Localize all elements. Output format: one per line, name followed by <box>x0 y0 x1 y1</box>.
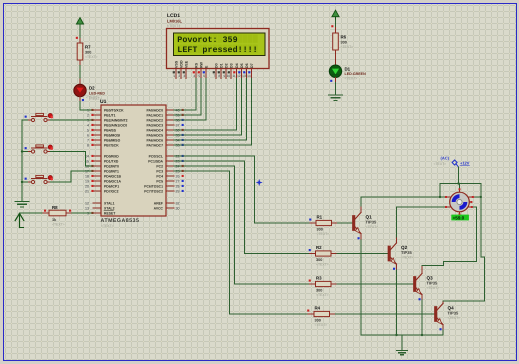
svg-text:D4: D4 <box>235 63 239 68</box>
svg-text:<TEXT>: <TEXT> <box>101 224 114 228</box>
U1 pin 8 (PB7/SCK) stub <box>87 143 119 147</box>
svg-text:PC5: PC5 <box>156 179 163 183</box>
LED D2 (red) <box>74 84 86 96</box>
svg-text:PD6/ICP1: PD6/ICP1 <box>104 184 119 188</box>
node marker left of R1 <box>309 219 311 221</box>
svg-text:18: 18 <box>85 174 89 178</box>
svg-text:R8: R8 <box>52 205 58 210</box>
svg-text:LED-RED: LED-RED <box>89 91 105 95</box>
svg-text:12: 12 <box>237 74 241 78</box>
U1 pin 34 (PA6/ADC6) stub <box>146 138 183 142</box>
transistor Q1 (TIP35 NPN) <box>353 212 362 233</box>
resistor R6 pins <box>335 28 337 34</box>
svg-text:PA6/ADC6: PA6/ADC6 <box>146 138 163 142</box>
wire Q4 emitter down to common bus <box>442 330 444 335</box>
resistor R4 labels <box>315 306 328 327</box>
U1 pin 4 (PB3/AIN1/OC0) stub <box>87 123 127 127</box>
resistor R2 pins <box>310 253 316 255</box>
resistor R2 labels <box>316 245 329 266</box>
wire R6 to D1 <box>335 58 337 65</box>
LCD1 pin 10 (D3) <box>227 63 234 78</box>
svg-text:D5: D5 <box>240 63 244 68</box>
wire motor right top pin to right drop <box>474 196 481 198</box>
svg-text:D7: D7 <box>250 63 254 68</box>
LED D2 labels <box>89 86 105 101</box>
svg-text:<TEXT>: <TEXT> <box>317 232 330 236</box>
wire U1 PC1 to R2 <box>174 161 310 254</box>
svg-text:LED-GREEN: LED-GREEN <box>345 72 367 76</box>
node marker left of R3 <box>309 280 311 282</box>
power terminal (VCC arrow) top left <box>76 18 83 24</box>
svg-text:32: 32 <box>176 201 180 205</box>
svg-text:PC3: PC3 <box>156 169 163 173</box>
svg-text:12: 12 <box>85 201 89 205</box>
svg-text:+59.0: +59.0 <box>453 215 465 220</box>
node red marker above R7 <box>76 37 78 39</box>
svg-text:300: 300 <box>85 50 91 54</box>
svg-text:7: 7 <box>87 138 89 142</box>
wire R1 to Q1 base <box>338 222 353 224</box>
wire left vertical bus <box>21 120 23 201</box>
wire U1 PC0 to R1 <box>174 156 310 223</box>
wire motor supply top rail <box>440 183 481 185</box>
transistor Q2 labels <box>401 245 414 260</box>
wire button2 left to bus <box>22 151 28 153</box>
svg-text:<TEXT>: <TEXT> <box>52 222 65 226</box>
power terminal symbol near motor <box>452 160 458 167</box>
svg-text:PA7/ADC7: PA7/ADC7 <box>146 143 163 147</box>
wire U1 PC3 to R4 <box>174 171 308 314</box>
svg-text:4: 4 <box>193 74 195 78</box>
wire button2 to U1 pin 16 PD2/INT0 <box>51 152 93 167</box>
svg-text:28: 28 <box>176 184 180 188</box>
svg-text:R1: R1 <box>317 215 323 220</box>
svg-text:+12V: +12V <box>460 161 470 166</box>
svg-text:5: 5 <box>87 128 89 132</box>
svg-text:Povorot: 359: Povorot: 359 <box>177 35 237 45</box>
Q1 collector pin <box>360 206 362 212</box>
svg-text:6: 6 <box>203 74 205 78</box>
svg-text:20: 20 <box>85 184 89 188</box>
svg-text:PB0/T0/XCK: PB0/T0/XCK <box>104 108 124 112</box>
Q3 emitter pin <box>421 295 423 300</box>
svg-text:PA3/ADC3: PA3/ADC3 <box>146 123 163 127</box>
U1 pin 6 (PB5/MOSI) stub <box>87 133 120 137</box>
transistor Q3 (TIP35 NPN) <box>414 273 423 294</box>
U1 pin 1 (PB0/T0/XCK) stub <box>87 108 124 112</box>
LCD1 pin 8 (D1) <box>218 63 224 78</box>
svg-text:PA4/ADC4: PA4/ADC4 <box>146 128 163 132</box>
node blue marker below D1 <box>330 80 332 82</box>
svg-text:9: 9 <box>223 74 225 78</box>
U1 pin 18 (PD4/OC1B) stub <box>85 174 122 178</box>
svg-text:R7: R7 <box>85 45 91 50</box>
Q4 emitter pin <box>442 325 444 330</box>
U1 pin 9 (RESET) stub <box>87 210 116 215</box>
wire button1 to U1 pin 3 PB2 <box>51 119 93 121</box>
svg-text:VEE: VEE <box>184 60 188 68</box>
svg-text:PD1/TXD: PD1/TXD <box>104 159 119 163</box>
resistor R3 <box>316 281 332 286</box>
svg-text:<TEXT>: <TEXT> <box>345 77 358 81</box>
LCD1 pin 1 (VSS) <box>173 60 179 78</box>
svg-text:AREF: AREF <box>154 201 163 205</box>
LED D1 (green) <box>329 65 341 77</box>
resistor R1 pins <box>310 222 316 224</box>
svg-text:D1: D1 <box>219 63 223 68</box>
svg-text:1: 1 <box>173 74 175 78</box>
wire motor top pin to supply rail <box>459 184 461 193</box>
LCD1 pin 7 (D0) <box>213 63 219 78</box>
U1 pin 35 (PA5/ADC5) stub <box>146 133 183 137</box>
U1 pin 12 (XTAL1) stub <box>85 201 115 205</box>
wire power to R6 <box>335 20 337 28</box>
wire D1 to ground <box>335 77 337 82</box>
wire R2 to Q2 base <box>337 253 388 255</box>
svg-text:300: 300 <box>316 258 322 262</box>
resistor R1 <box>316 220 332 225</box>
LCD1 pin 2 (VDD) <box>178 60 184 78</box>
transistor Q4 (TIP35 NPN) <box>435 303 444 324</box>
svg-text:PB3/AIN1/OC0: PB3/AIN1/OC0 <box>104 123 127 127</box>
U1 pin 39 (PA1/ADC1) stub <box>146 113 183 117</box>
LCD1 pin 4 (RS) <box>193 62 199 78</box>
svg-text:<TEXT>: <TEXT> <box>448 316 461 320</box>
ground symbol right column <box>329 95 343 100</box>
svg-text:11: 11 <box>232 74 236 78</box>
U1 pin 15 (PD1/TXD) stub <box>85 159 119 163</box>
LCD1 pin 14 (D7) <box>247 63 254 78</box>
svg-text:TIP35: TIP35 <box>366 220 377 225</box>
wire Q2 collector to motor coil 2 <box>397 207 447 237</box>
LED D2 anode pin <box>79 79 81 84</box>
LED D1 labels <box>345 66 367 80</box>
LCD1 screen <box>174 33 266 56</box>
svg-text:19: 19 <box>85 179 89 183</box>
junction node supply drop <box>457 182 459 184</box>
svg-text:PA0/ADC0: PA0/ADC0 <box>146 108 163 112</box>
U1 pin 20 (PD6/ICP1) stub <box>85 184 119 188</box>
svg-text:PC1/SDA: PC1/SDA <box>148 159 163 163</box>
svg-text:PA2/ADC2: PA2/ADC2 <box>146 118 163 122</box>
svg-text:D2: D2 <box>224 63 228 68</box>
svg-text:8: 8 <box>218 74 220 78</box>
resistor R4 pins <box>308 313 314 315</box>
resistor R2 <box>316 251 332 256</box>
U1 pin 27 (PC5) stub <box>156 179 183 183</box>
svg-text:PA5/ADC5: PA5/ADC5 <box>146 133 163 137</box>
resistor R6 labels <box>341 35 354 49</box>
U1 pin 29 (PC7/TOSC2) stub <box>144 189 183 193</box>
resistor R7 <box>77 43 83 60</box>
svg-text:30: 30 <box>176 206 180 210</box>
resistor R7 labels <box>85 45 98 59</box>
svg-text:4: 4 <box>87 123 89 127</box>
svg-text:PB5/MOSI: PB5/MOSI <box>104 133 120 137</box>
svg-text:PC6/TOSC1: PC6/TOSC1 <box>144 184 163 188</box>
junction node Q2 emitter on bus <box>395 334 397 336</box>
transistor Q4 labels <box>448 306 461 321</box>
svg-text:(AC): (AC) <box>441 156 450 161</box>
svg-text:13: 13 <box>85 206 89 210</box>
U1 pin 14 (PD0/RXD) stub <box>85 154 119 158</box>
wire Q1 collector to motor coil 1 <box>361 197 446 206</box>
U1 pin 2 (PB1/T1) stub <box>87 113 116 117</box>
wire motor right bottom pin down to Q3 feed <box>472 207 476 261</box>
LCD1 pin 6 (E) <box>203 65 209 79</box>
svg-text:300: 300 <box>316 288 322 292</box>
push button 2 <box>25 145 53 153</box>
LCD1 pin 5 (RW) <box>198 61 204 78</box>
transistor Q1 labels <box>366 215 379 230</box>
svg-text:<TEXT>: <TEXT> <box>434 162 447 166</box>
wire power arrow to R8 <box>20 212 44 214</box>
U1 pin 36 (PA4/ADC4) stub <box>146 128 183 132</box>
svg-text:PB6/MISO: PB6/MISO <box>104 138 121 142</box>
push button 3 <box>25 175 53 183</box>
svg-text:RESET: RESET <box>104 211 116 215</box>
svg-text:<TEXT>: <TEXT> <box>316 262 329 266</box>
svg-text:D2: D2 <box>89 86 95 91</box>
resistor R7 pins <box>79 39 81 44</box>
svg-text:RS: RS <box>194 62 198 68</box>
svg-text:PC4: PC4 <box>156 174 163 178</box>
svg-text:2: 2 <box>87 113 89 117</box>
svg-text:TIP35: TIP35 <box>448 311 459 316</box>
wire LCD RW to U1 PA1 <box>174 79 201 116</box>
microcontroller U1 ATMEGA8535 body <box>101 105 166 216</box>
junction node right drop coil <box>480 196 482 198</box>
push button 1 <box>25 113 53 121</box>
ground symbol bottom <box>397 351 408 355</box>
junction node Q3 emitter on bus <box>421 334 423 336</box>
resistor R6 <box>333 33 339 50</box>
node marker left of R2 <box>309 249 311 251</box>
U1 pin 25 (PC3) stub <box>156 169 183 173</box>
U1 pin 5 (PB4/SS) stub <box>87 128 117 132</box>
wire R3 to Q3 base <box>337 283 414 285</box>
wire power to R7 <box>79 24 81 39</box>
svg-text:<TEXT>: <TEXT> <box>341 45 354 49</box>
wire power terminal down to motor supply <box>458 167 460 183</box>
svg-text:R4: R4 <box>315 306 321 311</box>
LCD1 pin 11 (D4) <box>232 63 239 78</box>
svg-text:14: 14 <box>247 74 251 78</box>
svg-text:AVCC: AVCC <box>154 206 164 210</box>
svg-text:<TEXT>: <TEXT> <box>401 256 414 260</box>
wire supply rail left drop to coil1 row <box>439 184 441 198</box>
svg-text:26: 26 <box>176 174 180 178</box>
junction node left drop on coil1 wire <box>439 196 441 198</box>
wire Q3 collector to motor coil 3 <box>422 261 476 265</box>
transistor Q2 (TIP35 NPN) <box>388 243 397 264</box>
resistor R3 labels <box>316 276 329 297</box>
wire LCD E to U1 PA2 <box>174 79 206 121</box>
svg-text:R2: R2 <box>316 245 322 250</box>
svg-text:<TEXT>: <TEXT> <box>89 97 102 101</box>
U1 pin 17 (PD3/INT1) stub <box>85 169 119 173</box>
LCD display LCD1 body <box>167 29 270 69</box>
svg-text:R3: R3 <box>316 276 322 281</box>
svg-text:8: 8 <box>87 143 89 147</box>
U1 pin 7 (PB6/MISO) stub <box>87 138 121 142</box>
wire LCD D5 to U1 PA5 <box>174 79 242 136</box>
svg-text:10: 10 <box>227 74 231 78</box>
svg-text:TIP35: TIP35 <box>427 281 438 286</box>
svg-text:7: 7 <box>213 74 215 78</box>
U1 pin 13 (XTAL2) stub <box>85 206 115 210</box>
resistor R8 <box>49 210 66 216</box>
power terminal arrow at R8 <box>15 214 24 228</box>
svg-text:XTAL2: XTAL2 <box>104 206 115 210</box>
svg-text:13: 13 <box>242 74 246 78</box>
stepper motor M2 body <box>450 192 470 212</box>
origin marker blue star <box>256 179 263 186</box>
junction node button3 bus <box>21 181 23 183</box>
wire R7 to D2 <box>79 66 81 80</box>
wire button3 to U1 pin 17 PD3/INT1 <box>51 171 93 182</box>
svg-text:PA1/ADC1: PA1/ADC1 <box>146 113 163 117</box>
Q3 collector pin <box>421 266 423 274</box>
svg-text:PD3/INT1: PD3/INT1 <box>104 169 119 173</box>
U1 pin 40 (PA0/ADC0) stub <box>146 108 183 112</box>
junction node button2 bus <box>21 150 23 152</box>
node blue marker at Q3 emitter <box>419 298 421 300</box>
svg-text:PC2: PC2 <box>156 164 163 168</box>
wire LCD D6 to U1 PA6 <box>174 79 247 141</box>
wire LCD RS to U1 PA0 <box>174 79 196 111</box>
U1 pin 24 (PC2) stub <box>156 164 183 168</box>
svg-text:PC0/SCL: PC0/SCL <box>149 154 163 158</box>
svg-text:D1: D1 <box>345 66 351 71</box>
LCD1 pin 13 (D6) <box>242 63 249 78</box>
power terminal net label +12V <box>460 161 470 166</box>
node marker left of R4 <box>307 310 309 312</box>
wire Q3 emitter down to common bus <box>421 300 423 335</box>
svg-text:D3: D3 <box>229 63 233 68</box>
node red marker left of R8 <box>44 210 46 212</box>
U1 pin 32 (AREF) stub <box>154 201 180 205</box>
resistor R3 pins <box>310 283 316 285</box>
svg-text:21: 21 <box>85 189 89 193</box>
svg-text:LEFT pressed!!!!: LEFT pressed!!!! <box>177 45 257 55</box>
svg-text:PD7/OC2: PD7/OC2 <box>104 189 119 193</box>
svg-text:<TEXT>: <TEXT> <box>85 55 98 59</box>
wire bus to ground <box>401 335 403 350</box>
ground symbol left <box>15 202 29 207</box>
svg-text:6: 6 <box>87 133 89 137</box>
wire supply rail right drop <box>480 184 482 257</box>
node red marker right of R8 <box>69 210 71 212</box>
svg-text:3: 3 <box>183 74 185 78</box>
U1 pin 28 (PC6/TOSC1) stub <box>144 184 183 188</box>
wire common emitter bus <box>361 334 443 336</box>
Q2 emitter pin <box>396 264 398 270</box>
svg-text:<TEXT>: <TEXT> <box>167 24 180 28</box>
node red marker above R6 <box>331 25 333 27</box>
resistor R1 labels <box>317 215 330 236</box>
wire Q2 emitter down to common bus <box>396 270 398 335</box>
U1 pin 16 (PD2/INT0) stub <box>85 164 119 168</box>
LCD1 pin 3 (VEE) <box>183 60 189 78</box>
svg-text:300: 300 <box>317 227 323 231</box>
svg-text:29: 29 <box>176 189 180 193</box>
wire Q1 emitter down to common bus <box>360 240 362 335</box>
svg-text:R6: R6 <box>341 35 347 40</box>
LCD1 pin 12 (D5) <box>237 63 244 78</box>
U1 pin 23 (PC1/SDA) stub <box>148 159 183 163</box>
svg-text:VDD: VDD <box>179 60 183 68</box>
node blue marker at Q4 emitter <box>440 328 442 330</box>
transistor Q3 labels <box>427 276 440 291</box>
svg-text:RW: RW <box>199 61 203 68</box>
svg-text:XTAL1: XTAL1 <box>104 201 115 205</box>
node blue marker at Q1 emitter <box>358 237 360 239</box>
svg-text:300: 300 <box>315 318 321 322</box>
Q4 collector pin <box>442 301 444 303</box>
svg-text:5: 5 <box>198 74 200 78</box>
Q1 emitter pin <box>360 234 362 240</box>
U1 pin 3 (PB2/AIN0/INT2) stub <box>87 118 128 122</box>
wire Q4 collector to motor coil 4 <box>443 257 485 301</box>
LCD1 pin 9 (D2) <box>223 63 229 78</box>
wire LCD D7 to U1 PA7 <box>174 79 252 146</box>
svg-text:<TEXT>: <TEXT> <box>316 293 329 297</box>
U1 pin 26 (PC4) stub <box>156 174 183 178</box>
stepper motor M2 highlighted label <box>451 215 469 221</box>
svg-text:<TEXT>: <TEXT> <box>315 323 328 327</box>
svg-text:300: 300 <box>341 40 347 44</box>
svg-text:PD0/RXD: PD0/RXD <box>104 154 119 158</box>
svg-text:LM016L: LM016L <box>167 19 182 24</box>
svg-text:PB1/T1: PB1/T1 <box>104 113 116 117</box>
wire R4 to Q4 base <box>336 313 435 315</box>
resistor R8 pins <box>43 212 49 214</box>
svg-text:PB4/SS: PB4/SS <box>104 128 117 132</box>
svg-text:PD5/OC1A: PD5/OC1A <box>104 179 122 183</box>
wire LCD D4 to U1 PA4 <box>174 79 237 131</box>
U1 pin 37 (PA3/ADC3) stub <box>146 123 183 127</box>
svg-text:2: 2 <box>178 74 180 78</box>
U1 pin 21 (PD7/OC2) stub <box>85 189 119 193</box>
resistor R8 labels <box>52 205 65 227</box>
svg-text:<TEXT>: <TEXT> <box>427 286 440 290</box>
svg-text:TIP35: TIP35 <box>401 250 412 255</box>
Q2 collector pin <box>396 237 398 243</box>
U1 pin 30 (AVCC) stub <box>154 206 180 210</box>
U1 pin 22 (PC0/SCL) stub <box>149 154 184 158</box>
node blue marker below D2 <box>82 99 84 101</box>
svg-text:PB7/SCK: PB7/SCK <box>104 143 119 147</box>
U1 pin 19 (PD5/OC1A) stub <box>85 179 122 183</box>
wire button1 left to bus <box>22 119 28 121</box>
svg-text:D0: D0 <box>214 63 218 68</box>
wire R8 to U1 RESET pin 9 <box>72 212 93 214</box>
node blue marker at Q2 emitter <box>393 268 395 270</box>
wire D2 to U1 pin 1 PB0 <box>79 97 81 102</box>
U1 pin 33 (PA7/ADC7) stub <box>146 143 183 147</box>
U1 pin 38 (PA2/ADC2) stub <box>146 118 183 122</box>
svg-text:VSS: VSS <box>174 60 178 68</box>
power terminal (VCC arrow) top right <box>332 10 339 20</box>
stepper motor M2 pins <box>445 188 474 215</box>
resistor R4 <box>314 311 330 316</box>
svg-text:37: 37 <box>176 123 180 127</box>
svg-text:D6: D6 <box>245 63 249 68</box>
svg-text:PC7/TOSC2: PC7/TOSC2 <box>144 189 163 193</box>
wire U1 PC2 to R3 <box>174 166 310 284</box>
wire button3 left to bus <box>22 181 28 183</box>
